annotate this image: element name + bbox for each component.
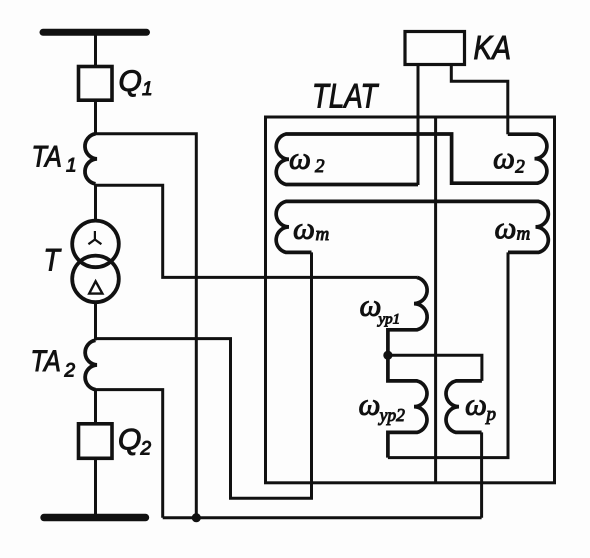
bottom busbar bbox=[44, 514, 146, 521]
wire wp bottom to bottom wire bbox=[480, 432, 483, 517]
svg-text:ω: ω bbox=[495, 210, 517, 245]
label wyp1 bbox=[360, 288, 401, 328]
wire TA1 to T bbox=[94, 184, 97, 221]
wire T to TA2 bbox=[94, 302, 97, 340]
node A junction dot bbox=[383, 351, 392, 360]
svg-text:ω: ω bbox=[293, 210, 315, 245]
breaker Q2 bbox=[79, 424, 113, 459]
svg-text:ω: ω bbox=[359, 387, 381, 422]
label wm right bbox=[495, 210, 531, 245]
CT TA2 bbox=[85, 340, 97, 389]
winding wyp1 bbox=[388, 277, 427, 355]
svg-text:Q: Q bbox=[119, 65, 142, 98]
wire wm-right bottom to wyp2 bottom bbox=[388, 252, 508, 457]
transformer T bbox=[72, 221, 119, 303]
CT TA1 bbox=[85, 134, 97, 184]
relay KA bbox=[405, 32, 465, 65]
top busbar bbox=[43, 29, 147, 36]
svg-text:m: m bbox=[316, 224, 330, 245]
TLAT box bbox=[266, 117, 555, 483]
svg-text:ω: ω bbox=[289, 141, 311, 176]
svg-text:2: 2 bbox=[140, 439, 152, 460]
svg-text:TA: TA bbox=[32, 139, 62, 173]
svg-text:Q: Q bbox=[118, 424, 141, 457]
winding wp bbox=[446, 381, 482, 433]
label TA1 bbox=[32, 139, 77, 176]
wire node A to wp top bbox=[388, 355, 482, 381]
wire TA1 bottom to wyp1 top edge bbox=[96, 185, 418, 277]
svg-text:yp1: yp1 bbox=[377, 312, 401, 328]
wire Q1 to TA1 bbox=[94, 100, 97, 134]
svg-text:yp2: yp2 bbox=[378, 405, 406, 425]
label TA2 bbox=[31, 344, 76, 382]
wire KA left terminal to w2-left bottom bbox=[417, 66, 420, 186]
label wm left bbox=[293, 210, 329, 245]
svg-text:T: T bbox=[44, 244, 62, 278]
label wp bbox=[465, 387, 496, 425]
label w2 right bbox=[493, 140, 525, 178]
label wyp2 bbox=[359, 387, 406, 425]
wire Q2 to bottom busbar bbox=[94, 458, 97, 517]
svg-text:TA: TA bbox=[31, 344, 61, 378]
winding wm (two half-windings, common top edge) bbox=[276, 201, 548, 252]
wire busbar to Q1 bbox=[94, 32, 97, 67]
wire KA right terminal to w2-right top bbox=[451, 66, 508, 135]
bottom wire bbox=[163, 516, 482, 519]
svg-text:1: 1 bbox=[142, 79, 153, 100]
svg-text:1: 1 bbox=[66, 156, 77, 177]
svg-text:m: m bbox=[517, 224, 531, 245]
svg-text:2: 2 bbox=[515, 157, 525, 178]
wire TA2 to Q2 bbox=[94, 390, 97, 424]
svg-text:KA: KA bbox=[474, 29, 512, 67]
svg-text:2: 2 bbox=[315, 156, 325, 177]
svg-text:ω: ω bbox=[465, 387, 487, 422]
svg-text:p: p bbox=[485, 404, 497, 425]
breaker Q1 bbox=[79, 67, 113, 101]
svg-text:ω: ω bbox=[493, 140, 515, 175]
wire wm-left bottom to TA2 top bbox=[96, 252, 312, 498]
winding w2 left and w2 right (series pair) bbox=[276, 134, 547, 185]
label Q1 bbox=[119, 65, 153, 100]
label w2 left bbox=[289, 141, 325, 178]
winding wyp2 bbox=[388, 355, 427, 457]
label Q2 bbox=[118, 424, 152, 460]
svg-text:2: 2 bbox=[64, 361, 76, 382]
core line bbox=[434, 117, 437, 483]
node B junction dot bbox=[192, 513, 201, 522]
wire TA1 top to bottom node bbox=[96, 134, 197, 518]
svg-text:TLAT: TLAT bbox=[312, 77, 379, 116]
wire TA2 bottom down bbox=[96, 390, 163, 518]
